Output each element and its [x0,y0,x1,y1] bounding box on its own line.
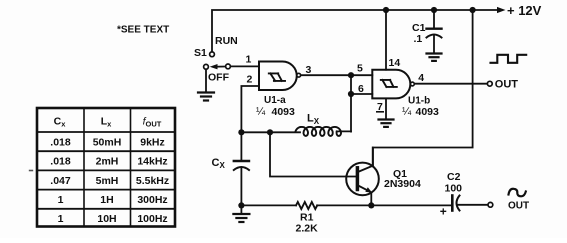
svg-text:.1: .1 [414,33,423,45]
node junction emitter/bottom wire [368,202,374,208]
node junction tank/Cx [238,129,244,135]
resistor R1 [296,202,317,209]
+12V supply arrow [497,7,506,13]
svg-text:OUT: OUT [508,201,529,212]
wire pin 2 [241,86,259,132]
transistor Q1 2N3904 [346,148,379,206]
svg-text:9kHz: 9kHz [140,136,165,148]
wire S1 to pin 1 [231,65,259,67]
svg-text:300Hz: 300Hz [137,194,167,206]
svg-text:+: + [440,205,447,219]
node junction rail/collector riser [470,7,476,13]
svg-text:LX: LX [307,113,320,127]
terminal square OUT [487,81,492,86]
svg-text:14kHz: 14kHz [137,156,167,168]
svg-text:OFF: OFF [208,72,230,84]
wire pin 7 to ground [385,98,387,118]
capacitor Cx [234,132,249,213]
svg-text:U1-b: U1-b [408,96,430,107]
table Cx Lx fOUT [37,108,175,227]
svg-text:2mH: 2mH [96,156,119,168]
svg-text:1H: 1H [100,194,113,206]
svg-text:2.2K: 2.2K [296,223,319,235]
svg-text:2N3904: 2N3904 [384,178,421,190]
wire pin 4 to square OUT [415,83,488,85]
wire emitter node to C2 [371,204,451,206]
wire R1 to emitter node [317,204,371,206]
svg-text:5.5kHz: 5.5kHz [136,175,169,187]
wire S1 pole to ground [205,69,207,91]
svg-text:Lx: Lx [101,116,112,129]
ground (C1) [427,54,442,61]
svg-text:U1-a: U1-a [264,95,286,106]
node junction Cx/bottom wire [238,202,244,208]
U1-a hysteresis symbol [269,73,285,81]
svg-text:3: 3 [306,64,312,76]
inductor Lx coil [296,127,342,136]
capacitor C2 (polarized) [452,196,459,211]
svg-text:100Hz: 100Hz [137,213,167,225]
svg-text:fOUT: fOUT [143,116,162,129]
node junction pin5 [348,72,354,78]
svg-text:.018: .018 [50,136,71,148]
U1-b hysteresis symbol [381,80,397,87]
svg-text:5mH: 5mH [96,175,119,187]
sine wave symbol [509,189,526,197]
node junction rail/C1 [431,7,437,13]
ground (S1) [198,93,214,101]
wire Q1 base [270,132,357,176]
U1-b output bubble pin 4 [411,82,415,86]
svg-text:100: 100 [445,183,463,195]
wire bottom left to R1 [241,204,296,206]
op-amp U1-b gate body (NAND 4093) [372,70,410,99]
wire +12V top rail [212,10,498,52]
capacitor C1 [427,10,442,53]
svg-text:5: 5 [357,63,363,75]
svg-text:14: 14 [389,57,401,69]
ground (Cx) [233,214,249,222]
wire pin 3 to pins 5 [301,74,372,76]
svg-text:C2: C2 [447,171,461,183]
U1-a output bubble pin 3 [297,73,301,77]
square wave symbol [491,55,527,63]
svg-text:6: 6 [358,83,364,95]
svg-text:4: 4 [418,72,424,84]
svg-text:10H: 10H [97,213,116,225]
wire Lx right end up [337,130,351,132]
svg-text:.047: .047 [50,175,71,187]
scan artifact tick left of table [29,170,33,172]
svg-text:1: 1 [58,194,64,206]
svg-text:CX: CX [212,157,226,170]
svg-text:S1: S1 [194,47,207,59]
svg-text:1: 1 [58,213,64,225]
node junction rail/pin14 [383,7,389,13]
svg-text:50mH: 50mH [93,136,122,148]
wire collector riser to Q1 [373,10,473,166]
wire pin 6 [351,93,372,95]
svg-text:Cx: Cx [54,116,67,129]
op-amp U1-a gate body (NAND 4093) [259,62,297,91]
node A (tank node wire) [241,131,300,133]
svg-text:1: 1 [246,54,252,66]
switch S1 [204,52,231,70]
svg-text:.018: .018 [50,156,71,168]
node junction pin6 [348,91,354,97]
svg-text:¼4093: ¼4093 [402,106,439,118]
node junction tank/base branch [267,129,273,135]
wire branch to pin6 and Lx [350,75,352,131]
ground (U1-b pin 7) [379,120,394,127]
svg-text:RUN: RUN [215,35,238,47]
svg-text:+ 12V: + 12V [507,3,542,18]
terminal sine OUT [488,202,493,207]
wire pin 14 to rail [385,10,387,70]
svg-text:OUT: OUT [495,79,519,91]
svg-text:*SEE TEXT: *SEE TEXT [117,25,169,36]
svg-text:¼4093: ¼4093 [256,106,295,118]
svg-text:2: 2 [247,74,253,86]
wire C2 to sine OUT [457,204,488,206]
